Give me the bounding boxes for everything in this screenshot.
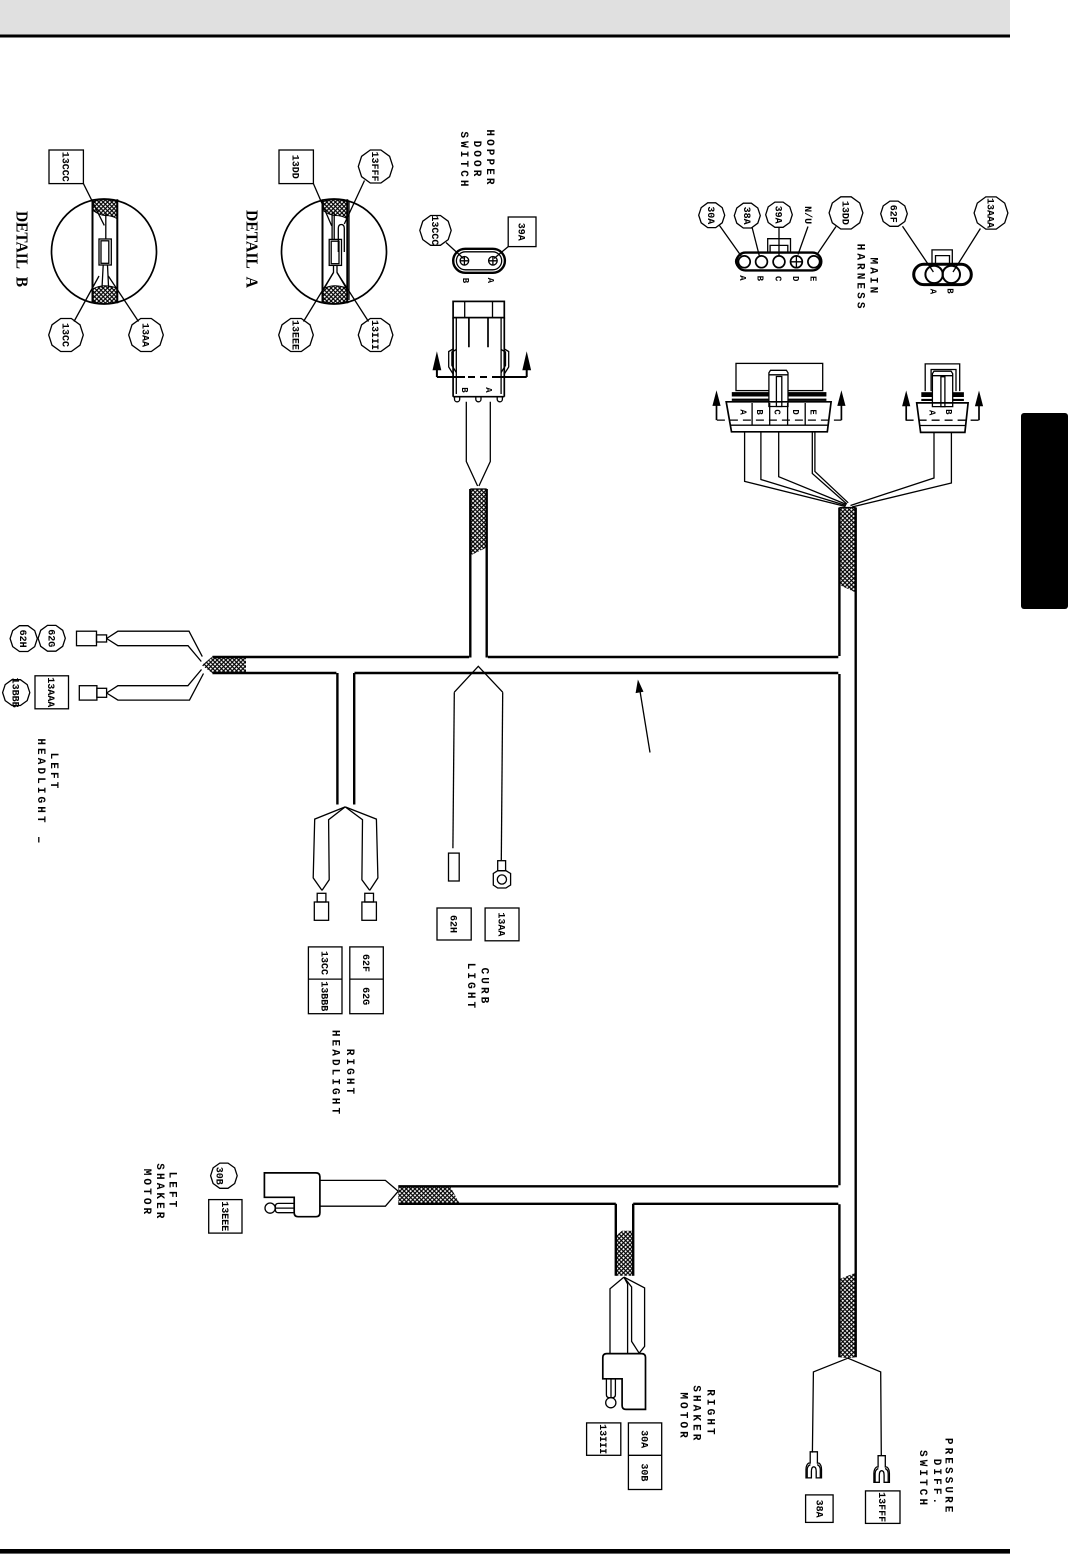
detail B circle [52,199,157,304]
node 13AAA square label [35,676,69,709]
2-pin right arrow [978,405,980,420]
svg-text:A: A [927,410,937,416]
pin C circle [773,256,785,268]
svg-text:B: B [945,288,955,294]
svg-text:62H: 62H [447,915,458,933]
leader 13CC [74,276,99,322]
switch terminal B [460,257,469,266]
svg-text:DOOR: DOOR [470,141,482,180]
leader 13EEE [304,273,334,322]
node 38A square label [806,1495,834,1523]
right headlight terminal 2 [365,893,374,902]
node 38A octagon [734,203,760,228]
pin B circle [756,256,768,268]
svg-text:N/U: N/U [801,206,813,224]
left headlight hatch wrap [202,656,246,673]
node 13FFF octagon [358,150,393,183]
svg-text:13DD: 13DD [289,155,300,179]
node 30A octagon [699,203,725,228]
svg-text:LEFT: LEFT [166,1172,178,1211]
pin D circle (plugged) [791,256,803,268]
detail B top breakout hatch [93,200,117,219]
plug prong [606,1379,615,1398]
svg-text:HOPPER: HOPPER [483,129,495,187]
svg-text:A: A [485,278,495,284]
right shaker wire A [610,1277,628,1354]
detail A harness band [323,199,348,303]
left removal arrow [436,369,438,377]
svg-text:13AA: 13AA [495,912,506,936]
detail B bottom breakout hatch [93,286,117,304]
svg-text:DIFF.: DIFF. [930,1459,942,1508]
svg-text:PRESSURE: PRESSURE [942,1438,954,1516]
node 13EEE octagon [279,319,314,352]
svg-text:38A: 38A [740,207,751,225]
curb light terminal (bullet) [449,853,460,881]
svg-text:B: B [755,276,765,282]
svg-text:A: A [737,275,747,281]
left shaker motor plug [264,1173,320,1217]
node 13AA octagon [129,319,164,352]
right headlight branch trunk [337,673,354,805]
main trunk hatch wrap [839,508,855,593]
2-pin connector latch bracket [932,250,952,264]
svg-text:62F: 62F [886,205,897,223]
2-pin removal dashed line [906,419,979,421]
svg-text:MOTOR: MOTOR [677,1392,689,1441]
headlight terminal 2 [79,686,97,700]
svg-text:HEADLIGHT: HEADLIGHT [329,1030,341,1117]
svg-text:62F: 62F [359,954,370,972]
leader 38A to pin B [752,227,760,257]
5-pin right arrow [840,405,842,420]
svg-text:MAIN: MAIN [867,257,879,296]
hopper connector side view: top cap [453,301,504,317]
5-pin side view latch [769,370,788,406]
node 13CC/13BBB label box [308,947,342,1014]
node 13AAA octagon [974,197,1008,229]
removal arrows line (dashed) [437,376,527,378]
svg-text:13III: 13III [596,1424,607,1454]
svg-text:SHAKER: SHAKER [153,1163,165,1221]
node 13DD octagon [829,197,863,229]
svg-text:13FFF: 13FFF [875,1492,886,1522]
detail B harness band [93,199,118,303]
fork terminal B [874,1456,890,1483]
5-pin side view body trapezoid [726,402,831,432]
svg-text:13FFF: 13FFF [368,151,379,181]
trunk bottom line [213,672,839,674]
leader 13CCC to terminal B [446,243,464,259]
svg-text:A: A [483,387,493,393]
fork terminal A [806,1452,822,1478]
svg-text:C: C [772,409,782,415]
wire from pin A [479,402,490,486]
leader 13AAA to pin B [953,229,980,273]
svg-text:RIGHT: RIGHT [704,1389,716,1438]
page header gray bar [0,0,1010,35]
hopper connector latch wings [449,349,457,374]
node 13BBB octagon [3,680,30,706]
svg-text:B: B [754,409,764,415]
detail A bottom breakout hatch [323,286,347,304]
leader 13III [337,273,369,322]
leader 62F to pin A [903,226,934,272]
connector pin bumps [455,397,503,402]
wire left shaker to hatch [320,1180,398,1206]
detail B wires below splice [102,265,109,288]
top rule [0,35,1010,38]
svg-text:E: E [808,409,818,415]
2-pin side view latch [932,371,952,406]
right shaker wire B [624,1277,645,1353]
hopper connector U slot [469,318,488,348]
right shaker motor plug [603,1354,646,1410]
hopper connector body sides [453,318,504,397]
curb light wires [454,666,502,692]
pin B circle (2-pin face) [943,266,960,283]
plug prong tip circle [265,1203,275,1213]
svg-text:13DD: 13DD [839,201,850,225]
2-pin connector face body [914,264,972,284]
svg-text:E: E [808,276,818,282]
svg-text:13CCC: 13CCC [428,215,439,245]
node 13AA square label [485,908,519,941]
svg-text:A: A [738,409,748,415]
hopper branch hatch wrap [470,489,486,556]
svg-text:LEFT: LEFT [47,753,59,792]
svg-text:30A: 30A [638,1430,649,1448]
svg-text:CURB: CURB [478,968,490,1007]
lower trunk hatch wrap [398,1186,460,1204]
svg-text:62H: 62H [16,630,27,648]
pin A circle (2-pin face) [925,266,942,283]
svg-text:62G: 62G [44,629,55,647]
node 30B octagon [211,1163,238,1188]
svg-text:SHAKER: SHAKER [690,1385,702,1443]
detail B wire into splice [105,214,107,239]
node 13CC octagon [49,319,84,352]
5-pin removal dashed line [717,419,842,421]
pressure diff wire A [812,1358,848,1452]
leader 13CCC to splice wire [83,184,104,226]
right headlight wire fan [313,807,345,891]
5-pin side view top cap [736,363,823,390]
svg-text:HARNESS: HARNESS [853,244,865,312]
leader 39A to pin C [778,227,780,256]
node 62F octagon [881,201,908,226]
5-pin left arrow [716,405,718,420]
right shaker branch hatch [616,1231,633,1276]
node 62F/62G label box [350,947,384,1014]
svg-text:B: B [459,387,469,393]
trunk top line [213,656,839,658]
svg-text:D: D [790,409,800,415]
svg-text:13AAA: 13AAA [984,198,995,228]
svg-text:A: A [928,289,938,295]
node 13CCC octagon (hopper) [420,216,451,246]
svg-text:62G: 62G [359,987,370,1005]
right headlight terminal 1 [317,893,326,902]
svg-text:HEADLIGHT: HEADLIGHT [34,738,46,825]
node 13III square label [587,1423,621,1455]
pressure diff branch hatch [839,1273,855,1359]
wire 1 to hatch [107,631,203,661]
svg-text:C: C [773,276,783,282]
node 13III octagon [358,319,393,352]
leader N/U to pin D [798,227,808,255]
svg-text:13BBB: 13BBB [9,678,20,708]
svg-text:30B: 30B [212,1167,223,1185]
svg-text:DETAIL A: DETAIL A [243,210,262,288]
svg-text:13AAA: 13AAA [44,677,55,707]
svg-text:13EEE: 13EEE [218,1201,229,1231]
plug prong [275,1203,294,1212]
5-pin connector face body [737,253,822,271]
pin E circle [808,256,820,268]
detail A folded wire hook [338,225,344,253]
headlight terminal 1 [77,631,97,646]
detail A splice [329,239,341,265]
5-pin connector latch bracket [768,239,791,253]
detail A top breakout hatch [323,200,347,219]
2-pin side view top cap [925,364,960,391]
svg-text:SWITCH: SWITCH [457,131,469,189]
5-pin side view seal band [732,392,827,396]
lower trunk top line [398,1185,838,1187]
leader 13FFF into band [344,181,364,225]
svg-text:39A: 39A [772,206,783,224]
right shaker branch trunk [616,1204,633,1276]
node 13EEE square label [209,1200,242,1234]
pin A circle [738,256,750,268]
wire from pin B [466,402,477,486]
pressure diff trunk sides [839,1272,855,1357]
2-pin side view body trapezoid [917,403,968,433]
svg-text:B: B [943,409,953,415]
svg-text:LIGHT: LIGHT [464,963,476,1012]
hopper connector bottom section [453,396,504,398]
svg-text:13CC: 13CC [318,951,329,975]
stray dash [38,837,40,843]
plug prong tip circle [606,1398,616,1408]
node 13FFF square label [866,1491,901,1524]
node 62H octagon [10,626,37,652]
hopper branch trunk lines [470,489,486,658]
annotation arrow [640,688,651,753]
svg-text:13CCC: 13CCC [59,152,70,182]
wires 2-pin to trunk [851,432,935,505]
svg-text:SWITCH: SWITCH [916,1450,928,1508]
svg-text:B: B [460,278,470,284]
leader 13DD to pin E [817,227,836,255]
right removal arrow [526,369,528,377]
svg-text:RIGHT: RIGHT [343,1049,355,1098]
node 39A octagon [766,202,793,227]
leader 13AA [108,276,138,322]
detail A wires below splice [324,265,347,289]
curb light ring terminal [498,861,506,871]
bottom rule [0,1549,1010,1554]
svg-text:30B: 30B [638,1463,649,1481]
leader 39A to terminal A [494,247,508,259]
svg-text:13III: 13III [368,320,379,350]
page edge index tab [1021,413,1068,609]
wire 2 to hatch [107,670,204,701]
svg-text:13EEE: 13EEE [289,320,300,350]
lower trunk bottom line [398,1203,838,1205]
svg-text:13CC: 13CC [59,323,70,347]
node 62H square label [437,908,471,940]
node 13CCC square label [49,150,83,184]
2-pin left arrow [905,405,907,420]
svg-text:38A: 38A [812,1500,823,1518]
svg-text:13BBB: 13BBB [318,981,329,1011]
node 13DD square label [279,150,313,184]
svg-text:D: D [790,276,800,282]
node 62G octagon [38,625,65,651]
switch terminal A [489,257,498,266]
2-pin side view seal band [921,392,964,397]
svg-text:MOTOR: MOTOR [140,1169,152,1218]
main trunk vertical lines [839,508,855,1280]
svg-text:13AA: 13AA [139,323,150,347]
node 30A/30B label box [628,1423,661,1490]
hopper switch face (oval) [453,249,505,273]
leader 30A to pin A [720,226,742,257]
svg-text:39A: 39A [515,223,526,241]
detail A wire pair into splice [332,213,334,240]
svg-text:30A: 30A [704,206,715,224]
leader 13DD into band [313,184,331,226]
svg-text:DETAIL B: DETAIL B [13,211,32,287]
node 39A square label [508,217,536,247]
detail A circle [282,199,387,304]
detail B splice [99,239,111,265]
pressure diff wire B [848,1358,881,1455]
wires 5-pin to trunk [745,432,846,507]
